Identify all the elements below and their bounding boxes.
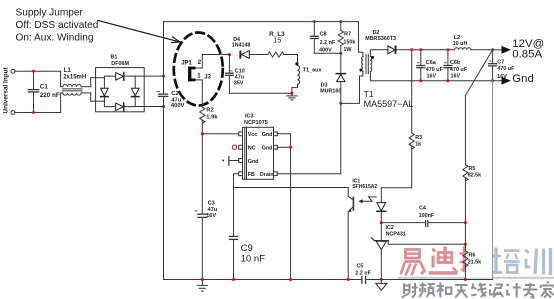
wire input top bbox=[15, 70, 61, 72]
svg-text:NCP1075: NCP1075 bbox=[244, 120, 268, 126]
diode D4 1N4148 bbox=[232, 37, 268, 58]
svg-text:1.9k: 1.9k bbox=[206, 115, 218, 121]
node C1 bottom bbox=[32, 111, 35, 114]
svg-text:SFH615A2: SFH615A2 bbox=[352, 184, 377, 190]
svg-text:R7: R7 bbox=[344, 31, 351, 37]
ground aux bbox=[287, 93, 297, 100]
svg-text:C6b: C6b bbox=[450, 60, 461, 66]
svg-text:MUR160: MUR160 bbox=[320, 89, 341, 95]
svg-text:B1: B1 bbox=[111, 54, 118, 60]
svg-text:IC3: IC3 bbox=[245, 113, 254, 119]
wire Drain bbox=[277, 103, 341, 173]
svg-text:400V: 400V bbox=[171, 103, 185, 109]
svg-text:100nF: 100nF bbox=[419, 213, 435, 219]
svg-text:R2: R2 bbox=[206, 108, 213, 114]
svg-text:C1: C1 bbox=[40, 84, 49, 91]
capacitor C5 Y-cap bbox=[355, 263, 371, 283]
svg-text:JP1: JP1 bbox=[181, 61, 192, 67]
node aux ground bbox=[290, 92, 293, 95]
node divider junction bbox=[464, 221, 467, 224]
resistor R3 bbox=[409, 50, 422, 188]
svg-text:FB: FB bbox=[248, 172, 255, 178]
svg-text:C3: C3 bbox=[208, 200, 215, 206]
capacitor C2 bbox=[157, 91, 184, 109]
svg-text:Supply Jumper: Supply Jumper bbox=[16, 7, 84, 18]
svg-text:10 nF: 10 nF bbox=[241, 253, 266, 264]
svg-text:C9: C9 bbox=[241, 243, 253, 254]
wire FB bbox=[234, 174, 239, 188]
pin Gnd right1 bbox=[274, 132, 278, 136]
LED IC1 diode bbox=[377, 188, 386, 223]
node C7 bottom bbox=[491, 79, 494, 82]
pin Drain bbox=[274, 172, 278, 176]
svg-text:Gnd: Gnd bbox=[512, 73, 534, 85]
resistor R7 bbox=[338, 22, 355, 54]
wire snubber bottom bbox=[314, 52, 341, 54]
node C7 top bbox=[491, 48, 494, 51]
capacitor C7 bbox=[489, 50, 515, 81]
watermark row2 text bbox=[402, 282, 554, 298]
svg-text:16V: 16V bbox=[427, 74, 437, 80]
svg-text:Drain: Drain bbox=[260, 172, 274, 178]
wire C10 to aux ground bbox=[229, 92, 292, 94]
input terminal top bbox=[11, 69, 15, 73]
svg-text:0.85A: 0.85A bbox=[512, 48, 542, 60]
svg-text:400V: 400V bbox=[319, 48, 332, 54]
wire diagonal feedback tap bbox=[465, 50, 492, 96]
resistor R2 bbox=[200, 107, 219, 123]
resistor R6 bbox=[463, 223, 481, 280]
inductor L1 bbox=[61, 68, 105, 113]
input terminal bottom bbox=[11, 111, 15, 115]
svg-text:470 uF: 470 uF bbox=[497, 66, 515, 72]
svg-text:C2: C2 bbox=[171, 91, 178, 97]
node R3 top bbox=[410, 48, 413, 51]
svg-text:82.5k: 82.5k bbox=[468, 172, 482, 178]
watermark char xun bbox=[526, 248, 551, 275]
diode D3 MUR160 bbox=[320, 53, 345, 103]
node C6a bottom bbox=[419, 79, 422, 82]
wire input bottom bbox=[15, 112, 61, 114]
watermark char pei bbox=[491, 248, 520, 273]
wire left rail upper bbox=[163, 22, 165, 94]
svg-text:15: 15 bbox=[273, 35, 281, 44]
svg-text:C7: C7 bbox=[497, 59, 504, 65]
capacitor C9 bbox=[230, 188, 266, 280]
svg-text:2x15mH: 2x15mH bbox=[63, 75, 86, 81]
svg-text:Vcc: Vcc bbox=[248, 132, 258, 138]
wire LED anode to R3 bbox=[381, 187, 411, 189]
svg-text:16V: 16V bbox=[206, 213, 216, 219]
bridge diode left bbox=[101, 88, 109, 96]
bridge diode right bbox=[131, 88, 139, 96]
svg-text:470 uF: 470 uF bbox=[426, 67, 444, 73]
node Vcc junction bbox=[201, 132, 204, 135]
dashed ellipse around jumper bbox=[174, 33, 223, 106]
svg-text:MBRS360T3: MBRS360T3 bbox=[365, 36, 396, 42]
wire Gnd pins to ground line bbox=[277, 134, 290, 280]
svg-text:C10: C10 bbox=[235, 68, 245, 74]
svg-text:16V: 16V bbox=[451, 74, 461, 80]
svg-text:1k: 1k bbox=[415, 142, 421, 148]
node opto emitter at rail bbox=[347, 278, 350, 281]
wire bottom rail primary bbox=[164, 279, 362, 281]
wire bottom rail secondary bbox=[366, 279, 493, 281]
node Gnd line at rail bbox=[289, 278, 292, 281]
wire T1 primary top bbox=[359, 22, 363, 57]
resistor R5 bbox=[463, 96, 481, 223]
white box over watermark between R6 and right gray line bbox=[466, 246, 492, 277]
annotation arrow bbox=[98, 21, 180, 43]
svg-text:1W: 1W bbox=[343, 47, 352, 53]
svg-text:Off: DSS activated: Off: DSS activated bbox=[16, 20, 99, 31]
svg-text:2.2 nF: 2.2 nF bbox=[355, 270, 371, 276]
svg-text:47u: 47u bbox=[208, 207, 218, 213]
svg-text:C8: C8 bbox=[320, 31, 327, 37]
bridge diode top bbox=[116, 73, 124, 81]
node LED cathode junction bbox=[380, 221, 383, 224]
watermark char yi bbox=[401, 250, 425, 276]
node ref junction bbox=[464, 243, 467, 246]
transformer T1 bbox=[359, 54, 413, 108]
svg-text:NCP431: NCP431 bbox=[386, 231, 406, 237]
ground primary bbox=[197, 280, 207, 292]
pin FB bbox=[239, 172, 243, 176]
node C3 ground bbox=[201, 278, 204, 281]
node snubber C8 top bbox=[313, 20, 316, 23]
svg-text:MA5597−AL: MA5597−AL bbox=[364, 99, 414, 109]
jumper JP1 bbox=[181, 60, 211, 82]
svg-text:On: Aux. Winding: On: Aux. Winding bbox=[16, 33, 94, 44]
wire bridge plus output bbox=[135, 75, 163, 77]
svg-text:J3: J3 bbox=[204, 74, 211, 80]
svg-text:L2: L2 bbox=[454, 35, 460, 41]
node bridge minus bbox=[162, 105, 165, 108]
svg-text:R3: R3 bbox=[415, 135, 422, 141]
node snubber bottom bbox=[339, 52, 342, 55]
output Gnd arrow bbox=[493, 73, 534, 85]
svg-text:Gnd: Gnd bbox=[262, 132, 273, 138]
pin Gnd left bbox=[239, 159, 243, 163]
capacitor C4 line bbox=[381, 205, 465, 226]
capacitor C6a bbox=[417, 50, 444, 81]
winding T1_aux bbox=[292, 55, 323, 94]
bridge diode bottom bbox=[116, 103, 124, 111]
node R6 at rail bbox=[464, 278, 467, 281]
svg-text:Gnd: Gnd bbox=[262, 146, 273, 152]
wire left rail lower bbox=[163, 97, 165, 280]
watermark underline bbox=[398, 277, 554, 279]
svg-text:T1_aux: T1_aux bbox=[303, 68, 323, 74]
shunt regulator IC2 NCP431 bbox=[372, 223, 406, 280]
capacitor C1 bbox=[28, 71, 60, 112]
node drain T1 D3 junction bbox=[339, 102, 342, 105]
wire JP1 pin2 to D4 node bbox=[196, 55, 230, 69]
svg-text:D2: D2 bbox=[373, 30, 380, 36]
node C6a top bbox=[419, 48, 422, 51]
node C1 top bbox=[32, 70, 35, 73]
node Gnd pins junction bbox=[289, 146, 292, 149]
wire R2 to Vcc/C3 bbox=[201, 120, 203, 214]
svg-text:C4: C4 bbox=[419, 205, 426, 211]
svg-text:Universal Input: Universal Input bbox=[3, 66, 10, 113]
svg-text:IC2: IC2 bbox=[386, 225, 394, 231]
capacitor at Gnd pin bbox=[222, 157, 239, 165]
node bridge plus bbox=[162, 75, 165, 78]
svg-text:10 uH: 10 uH bbox=[453, 41, 468, 47]
bridge rectifier B1 bbox=[96, 54, 145, 111]
pin NC bbox=[239, 145, 243, 149]
svg-text:T1: T1 bbox=[364, 89, 374, 99]
node snubber R7 top bbox=[339, 20, 342, 23]
svg-text:C6a: C6a bbox=[426, 60, 437, 66]
wire secondary gnd drop bbox=[492, 81, 494, 280]
annotation supply jumper text bbox=[16, 7, 99, 43]
wire T1 secondary top bbox=[370, 50, 387, 57]
watermark char tuo bbox=[460, 247, 488, 273]
svg-text:D3: D3 bbox=[321, 82, 328, 88]
diode D2 MBRS360T3 bbox=[365, 30, 396, 54]
op IC3 NCP1075 bbox=[239, 113, 278, 179]
wire T1 primary bottom bbox=[341, 72, 363, 104]
svg-text:C5: C5 bbox=[357, 263, 364, 269]
svg-text:35V: 35V bbox=[234, 80, 244, 86]
capacitor C8 bbox=[310, 22, 335, 54]
pin Gnd right2 bbox=[274, 145, 278, 149]
wire top rail bbox=[164, 21, 359, 23]
node C6b bottom bbox=[446, 79, 449, 82]
watermark char di bbox=[429, 247, 458, 274]
svg-text:21.5k: 21.5k bbox=[468, 260, 482, 266]
svg-text:220 nF: 220 nF bbox=[40, 92, 60, 99]
wire T1 secondary bottom bbox=[370, 72, 492, 81]
capacitor C3 bbox=[195, 200, 218, 279]
resistor R_L3 bbox=[268, 31, 298, 57]
svg-text:Gnd: Gnd bbox=[248, 159, 259, 165]
wire JP1 pin1 down bbox=[196, 80, 203, 107]
earth ground secondary bbox=[376, 280, 387, 291]
WATERMARK (drawn beneath schematic) bbox=[398, 246, 554, 297]
svg-text:DF06M: DF06M bbox=[111, 61, 129, 67]
svg-text:L1: L1 bbox=[64, 68, 72, 74]
node C6b top bbox=[446, 48, 449, 51]
inductor L2 bbox=[453, 35, 493, 50]
wire Vcc bbox=[202, 133, 238, 135]
svg-text:1N4148: 1N4148 bbox=[232, 42, 251, 48]
svg-text:2.2 nF: 2.2 nF bbox=[320, 40, 336, 46]
capacitor C6b bbox=[444, 50, 468, 81]
node IC2 anode at rail bbox=[380, 278, 383, 281]
pin Vcc bbox=[239, 132, 243, 136]
wire FB to opto collector bbox=[234, 187, 349, 189]
NC red circle bbox=[232, 145, 236, 149]
opto light arrow bbox=[363, 197, 377, 201]
transistor IC1 phototransistor bbox=[348, 179, 377, 280]
wire bridge minus output bbox=[135, 106, 163, 108]
capacitor C10 bbox=[226, 55, 245, 94]
node D4 C10 junction bbox=[228, 53, 231, 56]
output 12V arrow bbox=[493, 38, 545, 60]
node C9 at rail bbox=[232, 278, 235, 281]
wire 12V rail bbox=[397, 49, 455, 51]
svg-text:470 uF: 470 uF bbox=[450, 67, 468, 73]
wire IC2 ref bbox=[388, 241, 465, 244]
svg-text:R6: R6 bbox=[469, 253, 476, 259]
svg-text:NC: NC bbox=[248, 146, 256, 152]
svg-text:150k: 150k bbox=[343, 40, 355, 46]
svg-text:R5: R5 bbox=[469, 166, 476, 172]
